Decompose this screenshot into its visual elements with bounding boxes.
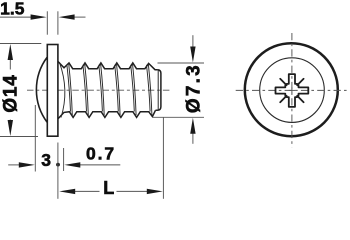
screw head flange (rect): [47, 45, 58, 137]
head outer circle (Ø14): [245, 43, 338, 136]
pozidriv recess cross outline: [276, 74, 309, 107]
node top view centerlines: [236, 33, 348, 147]
dimension Ø14 lines: [0, 44, 41, 137]
svg-text:0.7: 0.7: [86, 144, 116, 164]
pozidriv identification ticks: [280, 79, 303, 102]
dimension 3 lines: [8, 105, 35, 172]
dimension Ø7.3 lines: [153, 35, 204, 144]
svg-text:L: L: [103, 178, 114, 198]
svg-text:Ø7.3: Ø7.3: [183, 63, 204, 113]
extension line under head right edge: [57, 143, 59, 199]
thread top outline: [58, 61, 157, 69]
dimension L arrows: [59, 189, 163, 194]
dimension 3 dot terminator: [56, 163, 60, 167]
dimension 0.7 lines: [64, 148, 121, 171]
dimension Ø7.3 arrows: [190, 47, 195, 134]
screw tip chamfer line: [157, 70, 159, 109]
screw head dome arc: [36, 57, 47, 123]
dimension 0.7 arrow: [64, 162, 80, 167]
svg-text:3: 3: [41, 150, 51, 170]
thread bottom outline: [58, 110, 156, 119]
svg-text:1.5: 1.5: [0, 0, 25, 19]
wire centerline of screw side view: [27, 89, 172, 91]
dimension 3 arrow: [19, 162, 35, 167]
thread runout bow at neck: [59, 62, 64, 117]
dimension L lines: [72, 117, 163, 199]
head inner circle: [260, 58, 325, 123]
dimension 1.5 lines: [0, 11, 86, 34]
screw tip end face: [156, 70, 161, 111]
thread flank lines: [67, 64, 152, 116]
svg-text:Ø14: Ø14: [0, 74, 21, 112]
